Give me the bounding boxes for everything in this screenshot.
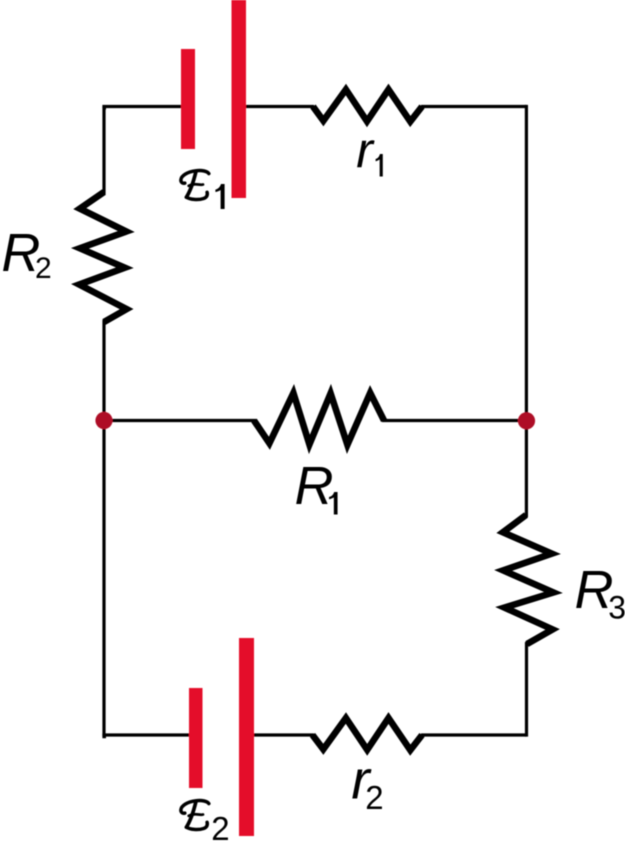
- wire right vertical upper (top-right corner to node B): [525, 105, 528, 421]
- wire left vertical lower (node A to bottom-left corner): [104, 421, 106, 737]
- battery E1 positive plate (tall red bar): [232, 0, 247, 198]
- svg-text:2: 2: [365, 779, 383, 816]
- label E1 subscript 1: [215, 184, 224, 209]
- svg-text:3: 3: [608, 589, 625, 625]
- wire middle, right segment (R1 to node B): [382, 419, 527, 422]
- svg-text:2: 2: [211, 810, 229, 847]
- wire bottom side, right segment (r2 to bottom-right corner): [421, 733, 527, 736]
- resistor R3 (right branch, vertical zigzag): [503, 515, 554, 644]
- node A (left junction dot): [95, 412, 112, 429]
- wire left vertical middle (R2 to node A): [102, 320, 105, 421]
- label E2 (script E): [181, 801, 209, 830]
- label r1 subscript 1: [376, 154, 383, 177]
- resistor r2 (bottom branch, internal resistance of E2): [313, 718, 423, 750]
- wire right vertical lower (R3 to bottom-right corner): [525, 642, 528, 737]
- resistor R1 (middle branch, horizontal zigzag): [254, 393, 384, 445]
- wire top side, right segment (r1 to top-right corner): [421, 105, 526, 108]
- battery E1 negative plate (short red bar): [181, 49, 195, 149]
- node B (right junction dot): [518, 412, 535, 429]
- resistor R2 (left branch, vertical zigzag): [79, 192, 126, 322]
- wire middle, left segment (node A to R1): [104, 419, 256, 422]
- wire top side, left segment (corner to battery E1): [102, 105, 182, 108]
- svg-text:r: r: [356, 123, 375, 179]
- battery E2 positive plate (tall red bar): [239, 638, 254, 836]
- wire right vertical middle (node B to R3): [525, 421, 528, 517]
- battery E2 negative plate (short red bar): [189, 688, 203, 788]
- wire bottom side, left segment (corner to battery E2): [102, 733, 190, 736]
- svg-text:2: 2: [35, 252, 52, 285]
- wire bottom side, middle segment (battery E2 to r2): [253, 733, 314, 736]
- wire top side, middle segment (battery E1 to r1): [245, 105, 314, 108]
- resistor r1 (top branch, internal resistance of E1): [313, 90, 422, 122]
- label R1 subscript 1: [329, 492, 338, 515]
- wire left vertical top (top-left corner to R2): [104, 108, 106, 194]
- label E1 (script E): [181, 171, 209, 200]
- svg-text:R: R: [295, 456, 334, 516]
